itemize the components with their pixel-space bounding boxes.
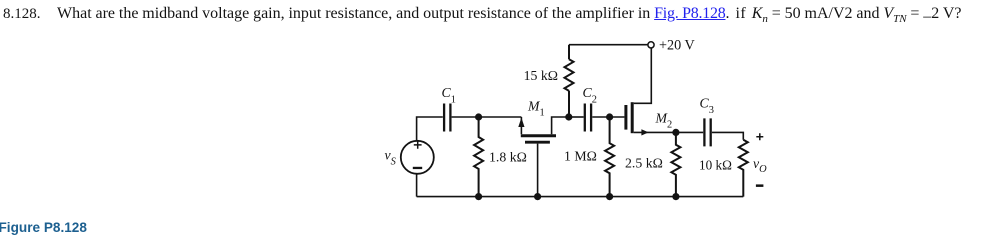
svg-text:M2: M2	[655, 110, 673, 130]
node dot top of 1.8k	[475, 113, 482, 120]
resistor 10 kOhm	[739, 140, 748, 197]
M1 drain lead	[552, 117, 569, 134]
rail node dot 1M	[606, 193, 613, 200]
M2 gate bar	[624, 105, 627, 130]
svg-text:1.8 kΩ: 1.8 kΩ	[489, 150, 527, 165]
svg-text:15 kΩ: 15 kΩ	[524, 68, 558, 83]
capacitor C3	[704, 118, 710, 146]
resistor 1 MOhm	[605, 117, 614, 197]
M1 gate lead to ground rail	[537, 144, 539, 197]
capacitor C1	[444, 104, 450, 132]
node dot M2 source	[672, 129, 679, 136]
node dot top of 1M	[606, 113, 613, 120]
svg-text:C2: C2	[583, 85, 597, 105]
vs minus sign	[413, 167, 422, 169]
transistor M1	[518, 98, 568, 196]
wire C1 to M1 source	[452, 116, 522, 118]
svg-text:C1: C1	[442, 85, 456, 105]
svg-text:vO: vO	[753, 156, 767, 175]
svg-text:vS: vS	[385, 148, 397, 168]
resistor 15 kOhm	[565, 45, 574, 117]
resistor 1.8 kOhm	[474, 117, 483, 197]
voltage source vs	[401, 141, 434, 174]
rail node dot M1 gate	[534, 193, 541, 200]
svg-text:1 MΩ: 1 MΩ	[564, 149, 597, 164]
M1 source lead with arrow	[520, 117, 522, 134]
resistor 2.5 kOhm	[671, 132, 680, 196]
svg-text:10 kΩ: 10 kΩ	[699, 157, 732, 172]
wire top rail to +20V terminal	[569, 44, 648, 46]
figure caption	[0, 220, 87, 235]
ground rail	[417, 196, 744, 198]
svg-text:+20 V: +20 V	[659, 38, 695, 54]
capacitor C2	[585, 104, 591, 132]
wire node to C2	[569, 116, 584, 118]
transistor M2	[626, 48, 676, 135]
wire C3 to 10k	[712, 132, 743, 139]
vs plus sign	[414, 141, 422, 149]
output plus sign	[756, 133, 763, 140]
svg-text:2.5 kΩ: 2.5 kΩ	[625, 156, 663, 171]
node dot M1 drain / 15k / C2	[565, 113, 572, 120]
rail node dot 1.8k	[475, 193, 482, 200]
problem statement text	[3, 5, 962, 23]
+20V terminal circle	[648, 42, 654, 48]
M1 channel bar	[521, 134, 556, 137]
wire vs bottom to rail	[416, 174, 418, 197]
M2 drain lead to +20V	[634, 48, 652, 103]
svg-text:C3: C3	[700, 96, 714, 116]
rail node dot 2.5k	[672, 193, 679, 200]
wire vs top to C1	[417, 117, 443, 141]
M2 source lead with arrow	[634, 131, 676, 133]
wire M2 source to C3	[676, 131, 703, 133]
M1 gate bar	[525, 141, 550, 144]
M2 channel bar	[631, 102, 634, 133]
wire C2 to M2 gate	[592, 116, 624, 118]
output minus sign	[756, 184, 764, 187]
svg-text:M1: M1	[527, 98, 545, 118]
